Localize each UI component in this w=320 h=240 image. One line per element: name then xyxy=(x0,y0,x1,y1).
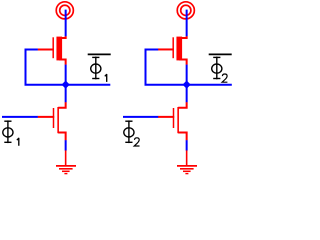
wire: load gate feedback loop to output node rail xyxy=(26,49,111,84)
wire: load source down to node xyxy=(65,65,67,85)
node: phi1-bar output junction (diamond dot) xyxy=(62,81,70,89)
label: node name phi1-bar (overbar phi sub 1) xyxy=(88,54,111,82)
wire: load source down to node xyxy=(186,65,188,85)
wire: driver source to ground xyxy=(186,140,188,150)
wire: phi1 input to driver gate xyxy=(2,116,38,118)
ground xyxy=(56,150,76,173)
ground xyxy=(177,150,197,173)
wire: load gate feedback loop to output node rail xyxy=(146,49,232,84)
transistor M2D (enhancement driver, red) xyxy=(158,102,187,140)
clock pad P1 (double circle) xyxy=(56,2,73,19)
node: phi2-bar output junction (diamond dot) xyxy=(183,81,191,89)
wire: phi2 input to driver gate xyxy=(123,116,158,118)
wire: driver source to ground xyxy=(65,140,67,150)
label: input name phi2 xyxy=(124,120,140,146)
wire: pad to load drain xyxy=(65,10,67,37)
wire: pad to load drain xyxy=(186,10,188,37)
label: node name phi2-bar (overbar phi sub 2) xyxy=(209,54,232,82)
wire: node down to driver drain xyxy=(186,85,188,103)
label: input name phi1 xyxy=(3,120,19,145)
transistor M1D (enhancement driver, red) xyxy=(38,102,66,140)
wire: node down to driver drain xyxy=(65,85,67,103)
transistor M1L (depletion-mode load, red) xyxy=(38,36,66,65)
transistor M2L (depletion-mode load, red) xyxy=(158,36,187,65)
clock pad P2 (double circle) xyxy=(177,2,194,19)
